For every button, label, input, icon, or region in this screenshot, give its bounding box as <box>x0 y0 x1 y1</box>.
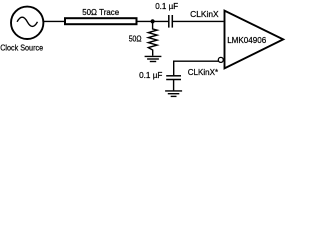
wire CLKinX* net <box>174 61 220 75</box>
wire capacitor C1 to buffer input CLKinX <box>173 20 224 22</box>
capacitor C2 0.1 µF (shunt, CLKinX*) <box>166 76 181 80</box>
svg-text:LMK04906: LMK04906 <box>227 35 266 45</box>
clock source <box>11 7 43 39</box>
svg-text:CLKinX: CLKinX <box>190 9 219 19</box>
svg-text:0.1 µF: 0.1 µF <box>139 70 162 80</box>
inverting input bubble <box>218 57 223 62</box>
svg-text:Clock Source: Clock Source <box>0 43 43 53</box>
node junction dot <box>151 19 155 23</box>
ground (resistor R1) <box>145 56 162 61</box>
svg-text:CLKinX*: CLKinX* <box>188 67 219 77</box>
capacitor C1 0.1 µF (series, CLKinX) <box>169 15 173 28</box>
buffer U1 LMK04906 <box>225 11 284 69</box>
wire trace to capacitor C1 <box>138 20 169 22</box>
svg-text:50Ω: 50Ω <box>129 33 142 43</box>
wire clock source to trace <box>43 20 65 22</box>
wire capacitor C2 to ground <box>173 80 175 91</box>
svg-text:50Ω Trace: 50Ω Trace <box>82 7 119 17</box>
ground (capacitor C2) <box>165 91 182 97</box>
svg-text:0.1 µF: 0.1 µF <box>155 1 178 11</box>
transmission line 50 ohm trace <box>65 18 137 24</box>
resistor R1 50Ω <box>148 21 157 55</box>
